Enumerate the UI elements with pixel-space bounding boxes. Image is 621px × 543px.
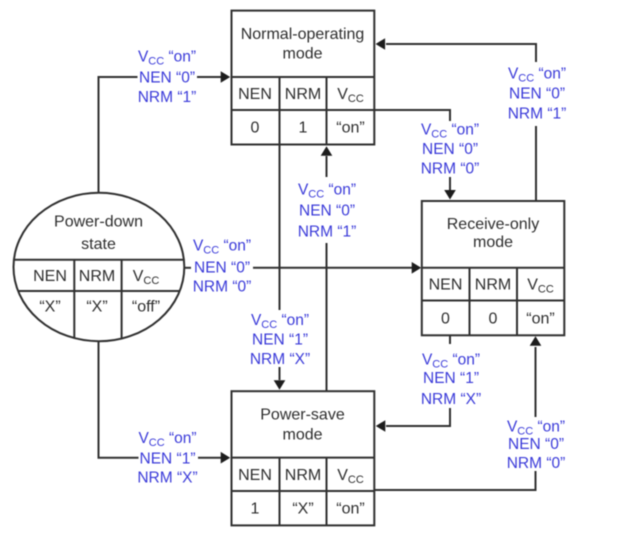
svg-text:NRM “0”: NRM “0”: [193, 279, 252, 296]
svg-text:NEN: NEN: [238, 467, 272, 484]
svg-text:“on”: “on”: [336, 501, 364, 518]
label: Vcc on / NEN 0 / NRM 0 (normal to receive-only): [421, 122, 480, 178]
svg-text:NEN: NEN: [429, 277, 463, 294]
svg-text:NRM: NRM: [285, 467, 321, 484]
svg-text:0: 0: [489, 310, 498, 327]
svg-text:mode: mode: [282, 427, 322, 444]
svg-text:VCC “on”: VCC “on”: [251, 312, 309, 331]
wire: power-down to power-save: [99, 341, 231, 464]
svg-text:NRM “X”: NRM “X”: [137, 470, 197, 487]
svg-text:Normal-operating: Normal-operating: [241, 26, 365, 43]
svg-text:NEN “0”: NEN “0”: [422, 141, 478, 158]
svg-text:“X”: “X”: [292, 501, 313, 518]
svg-text:“X”: “X”: [86, 299, 107, 316]
label: Vcc on / NEN 0 / NRM 1 (power-down to normal): [138, 49, 197, 107]
svg-text:NRM: NRM: [475, 277, 511, 294]
svg-text:NEN “0”: NEN “0”: [299, 203, 355, 220]
wire: power-down to receive-only: [184, 262, 422, 274]
svg-text:0: 0: [251, 120, 260, 137]
state box: Normal-operating mode: [231, 11, 375, 145]
label: Vcc on / NEN 1 / NRM X (receive-only to power-save): [421, 352, 481, 409]
label: Vcc on / NEN 0 / NRM 1 (power-save to normal): [298, 182, 357, 241]
state box: Receive-only mode: [422, 201, 565, 335]
svg-text:NRM “X”: NRM “X”: [421, 391, 481, 408]
state box: Power-save mode: [232, 391, 375, 525]
wire: normal-operating to power-save (down arrow): [274, 145, 286, 390]
svg-text:NRM “1”: NRM “1”: [508, 106, 567, 123]
wire: normal-operating to receive-only: [375, 110, 456, 200]
svg-text:mode: mode: [473, 234, 513, 251]
svg-text:“on”: “on”: [336, 120, 364, 137]
svg-text:NRM “1”: NRM “1”: [138, 89, 197, 106]
svg-text:NRM “0”: NRM “0”: [507, 455, 566, 472]
label: Vcc on / NEN 1 / NRM X (normal to power-save): [250, 312, 310, 368]
svg-text:NEN: NEN: [33, 268, 67, 285]
svg-text:VCC “on”: VCC “on”: [508, 66, 566, 85]
svg-text:VCC “on”: VCC “on”: [422, 352, 480, 371]
svg-text:mode: mode: [282, 46, 322, 63]
svg-text:NRM “0”: NRM “0”: [421, 161, 480, 178]
svg-text:VCC “on”: VCC “on”: [193, 238, 251, 257]
wire: receive-only to power-save: [376, 335, 450, 432]
svg-text:Power-down: Power-down: [54, 214, 143, 231]
label: Vcc on / NEN 0 / NRM 0 (power-down to receive-only): [193, 238, 252, 296]
svg-text:NRM “1”: NRM “1”: [298, 224, 357, 241]
wire: power-save to normal-operating (up arrow): [321, 146, 333, 391]
svg-text:Power-save: Power-save: [260, 407, 345, 424]
svg-text:0: 0: [441, 310, 450, 327]
svg-text:NEN “1”: NEN “1”: [140, 451, 196, 468]
svg-text:NEN “0”: NEN “0”: [509, 86, 565, 103]
svg-text:1: 1: [299, 120, 308, 137]
svg-text:VCC “on”: VCC “on”: [138, 430, 196, 449]
svg-text:“off”: “off”: [132, 299, 160, 316]
label: Vcc on / NEN 0 / NRM 0 (power-save to receive-only): [507, 419, 566, 473]
svg-text:“on”: “on”: [526, 310, 554, 327]
svg-text:NEN “0”: NEN “0”: [139, 70, 195, 87]
svg-text:NEN “1”: NEN “1”: [252, 332, 308, 349]
label: Vcc on / NEN 1 / NRM X (power-down to power-save): [137, 430, 197, 487]
svg-text:VCC “on”: VCC “on”: [421, 122, 479, 141]
svg-text:VCC “on”: VCC “on”: [298, 182, 356, 201]
svg-text:1: 1: [251, 501, 260, 518]
wire: receive-only to normal-operating: [376, 38, 536, 201]
svg-text:NEN “0”: NEN “0”: [194, 260, 250, 277]
wire: power-save to receive-only: [374, 336, 541, 490]
svg-text:Receive-only: Receive-only: [447, 216, 539, 233]
svg-text:NEN “0”: NEN “0”: [508, 436, 564, 453]
svg-text:“X”: “X”: [39, 299, 60, 316]
svg-text:state: state: [81, 236, 116, 253]
svg-text:VCC “on”: VCC “on”: [138, 49, 196, 68]
svg-text:NRM: NRM: [285, 86, 321, 103]
wire: power-down to normal-operating: [99, 71, 231, 192]
svg-text:NEN “1”: NEN “1”: [423, 370, 479, 387]
state ellipse: Power-down state: [14, 193, 185, 341]
svg-text:VCC “on”: VCC “on”: [507, 419, 565, 438]
label: Vcc on / NEN 0 / NRM 1 (receive-only to normal): [508, 66, 567, 123]
svg-text:NEN: NEN: [238, 86, 272, 103]
svg-text:NRM: NRM: [79, 268, 115, 285]
svg-text:NRM “X”: NRM “X”: [250, 351, 310, 368]
